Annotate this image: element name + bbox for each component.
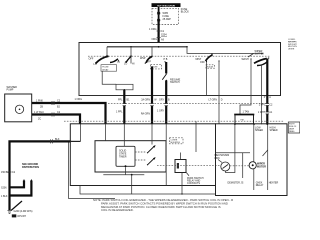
washer pump motor M3 (15, 105, 23, 113)
svg-text:DEMISTER JS: DEMISTER JS (228, 181, 244, 184)
park switch label (187, 173, 204, 185)
wire ORG from fuse to switch box (149, 22, 167, 44)
mechanical link dashed line (88, 55, 270, 57)
svg-text:1 ORG: 1 ORG (149, 28, 157, 31)
switch SW3 pivot and contacts (196, 54, 220, 69)
note text block (93, 198, 233, 212)
feed stub to SW1b pivot (130, 47, 132, 64)
capacitor C1 box (175, 153, 186, 173)
splice branch S2g (1, 179, 33, 198)
see ground distribution note (22, 163, 39, 169)
svg-text:PPL: PPL (118, 99, 123, 102)
module internal bottom wire (103, 167, 144, 175)
svg-text:1 PPL: 1 PPL (259, 104, 266, 107)
wire HI speed heavy down right (258, 59, 273, 125)
svg-text:LEVER: LEVER (288, 49, 295, 51)
svg-text:HEATER: HEATER (269, 181, 279, 184)
relay arm K1a (147, 145, 156, 153)
wiper motor armature (249, 162, 266, 169)
svg-text:SWITCH: SWITCH (170, 81, 180, 84)
wire PPL from resistor down (116, 89, 130, 124)
feed stub to SW2 pivot (151, 47, 153, 56)
svg-text:S206: S206 (1, 186, 7, 189)
wire GRY2 from SW2 right contact down (157, 62, 170, 124)
cover mounted dashed label box (170, 138, 184, 144)
relay arm K1b (147, 157, 156, 165)
wire washer pump feed PNK (heavy) (32, 99, 106, 124)
svg-text:PUMP: PUMP (7, 89, 14, 92)
relay dashed links (135, 151, 146, 153)
svg-text:BLOCK: BLOCK (181, 11, 190, 14)
wire SW4 pivot down (261, 65, 263, 125)
svg-text:CONTACTS: CONTACTS (187, 182, 200, 185)
svg-text:HOT IN ACC/RUN: HOT IN ACC/RUN (157, 4, 175, 7)
connector dashed line C2 (64, 120, 284, 122)
svg-text:ORG: ORG (152, 38, 158, 41)
fuse F1 WPR 25A (157, 7, 171, 25)
wiper motor module box M1 (70, 124, 215, 186)
svg-text:LT GRN: LT GRN (208, 99, 217, 102)
module inner box (95, 141, 166, 172)
svg-text:PANEL: PANEL (289, 130, 295, 133)
svg-text:RELAY: RELAY (256, 184, 264, 187)
svg-text:COIL IS DE-ENERGIZED.: COIL IS DE-ENERGIZED. (101, 208, 134, 212)
svg-text:SPEED: SPEED (270, 129, 278, 132)
right margin boxed note (288, 122, 300, 133)
svg-text:W/S RH: W/S RH (17, 215, 26, 218)
svg-text:1 PPL: 1 PPL (116, 111, 123, 114)
svg-text:1 ORG: 1 ORG (75, 98, 83, 101)
junction dots on motor box top (234, 123, 268, 125)
svg-text:PULSE: PULSE (207, 67, 214, 69)
svg-text:HI: HI (132, 63, 135, 66)
svg-text:MOUNTED: MOUNTED (171, 142, 181, 144)
brush wires inside motor box (216, 124, 268, 190)
svg-text:2B: 2B (40, 106, 43, 109)
svg-text:150 BLK: 150 BLK (1, 171, 11, 174)
svg-text:1 BLK: 1 BLK (1, 195, 8, 198)
ground bus heavy BLK (10, 138, 71, 210)
switch SW2 pivot and contacts (140, 56, 168, 69)
wire inside module x196 (195, 121, 197, 152)
splice branch S1g (1, 179, 25, 189)
wire from SW1 INT contact to delay box (102, 71, 116, 84)
wire ground converging diagonal (11, 201, 22, 211)
fuse block label (181, 8, 190, 14)
wire GRY from SW2 contact down (141, 67, 157, 125)
feed stub to SW1 pivot (106, 47, 108, 56)
svg-text:2A GRN: 2A GRN (141, 99, 150, 102)
wire wash switch to suppressor (240, 60, 251, 115)
high speed label (270, 126, 278, 132)
svg-text:SPEED: SPEED (255, 129, 263, 132)
svg-text:1 LT BLU: 1 LT BLU (34, 111, 44, 114)
washer pump box (5, 94, 32, 122)
svg-text:1 WHT: 1 WHT (258, 111, 266, 114)
svg-text:WASH: WASH (242, 58, 249, 61)
switch assembly outer box S1 (79, 43, 281, 96)
motor bottom labels (228, 181, 279, 187)
svg-text:LINK: LINK (215, 157, 221, 160)
dashed mechanical link to motor (230, 165, 249, 167)
svg-text:D: D (221, 99, 223, 102)
svg-text:TIMER: TIMER (119, 156, 127, 159)
internal feed bus wire (107, 46, 188, 48)
svg-text:GRY: GRY (159, 99, 165, 102)
svg-text:WSP: WSP (140, 57, 146, 60)
fuse block dashed box (152, 8, 179, 24)
svg-text:1 PNK: 1 PNK (36, 99, 43, 102)
svg-text:DELAY: DELAY (102, 68, 109, 71)
svg-text:G200 (4-DR W/S): G200 (4-DR W/S) (14, 210, 33, 213)
svg-text:OFF: OFF (200, 61, 205, 64)
svg-text:BLK: BLK (55, 138, 60, 141)
switch SW1b contacts (124, 55, 135, 65)
svg-text:MOTOR: MOTOR (257, 165, 266, 168)
washer pump label (7, 86, 18, 92)
svg-text:1 GRY: 1 GRY (157, 109, 165, 112)
svg-text:PULSE: PULSE (102, 67, 109, 69)
connector dashed line C1 (108, 102, 266, 104)
feed path to SW3 and SW4 pivots (187, 47, 262, 54)
suppressor box B2 (234, 111, 254, 124)
crank mechanism circle (215, 154, 230, 171)
svg-text:PM: PM (241, 119, 244, 121)
svg-text:RA GRN: RA GRN (141, 113, 150, 116)
wiper switch label with leader (248, 50, 264, 57)
switch SW4 wash (242, 53, 270, 66)
wire park switch down to rail (181, 173, 183, 195)
svg-text:DISTRIBUTION: DISTRIBUTION (22, 166, 39, 169)
svg-text:OFF: OFF (89, 58, 94, 61)
connector gaps on wires at C1 (123, 104, 269, 114)
svg-text:25 AMP: 25 AMP (163, 18, 172, 21)
switch SW1 rotary OFF/LO/INT/HI (89, 55, 121, 66)
svg-text:HI: HI (118, 61, 121, 64)
wires into module from connectors (106, 124, 167, 186)
resume switch label (170, 79, 181, 85)
wire stub ground from module (69, 124, 115, 199)
svg-text:1 TAN: 1 TAN (243, 111, 250, 114)
mechanical link dashed relay to crank (157, 165, 221, 167)
wiper motor box M2 (216, 124, 288, 196)
pulse delay dashed box under SW1 (101, 65, 117, 72)
wire from SW3 contact down (218, 61, 220, 123)
low speed label (255, 126, 263, 132)
svg-text:OFF: OFF (146, 61, 151, 64)
solid state timer box U1 (116, 146, 135, 167)
svg-text:LO: LO (124, 63, 127, 66)
resistor box R1 (116, 84, 133, 90)
ground G200 (8, 210, 33, 218)
right margin note top (288, 39, 298, 51)
svg-text:P B: P B (164, 58, 168, 61)
svg-text:2C: 2C (38, 117, 41, 120)
wire from S1 left edge down (ORG loop) (79, 43, 281, 96)
wire washer pump LT BLU (heavy) (32, 111, 80, 124)
wire module ground down (80, 175, 132, 194)
header HOT IN ACC/RUN black bar (152, 3, 181, 7)
wire SW3 left contact stub (206, 62, 208, 96)
ground bus labels (1, 171, 16, 174)
